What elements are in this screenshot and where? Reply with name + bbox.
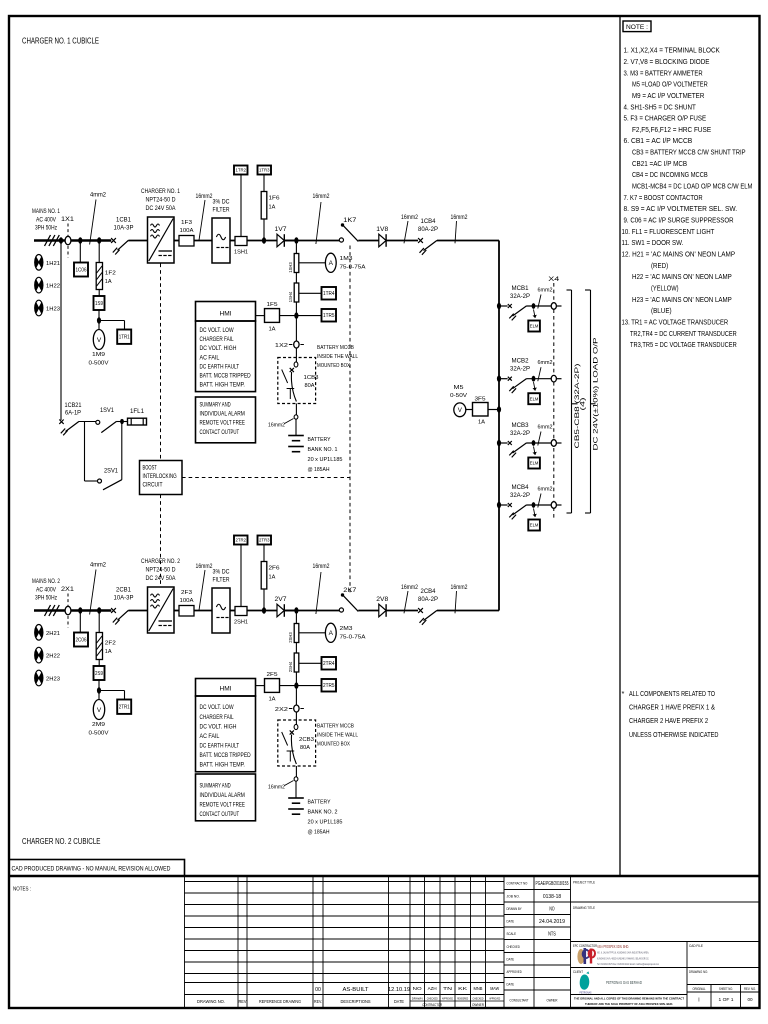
svg-text:INTERLOCKING: INTERLOCKING xyxy=(143,473,177,480)
notes panel divider xyxy=(619,16,621,876)
wire 2V8 to breaker 2CB4 xyxy=(386,610,418,612)
terminal 1X2 xyxy=(289,344,293,346)
wire 1SH4 to junction xyxy=(295,302,297,316)
svg-text:1SV1: 1SV1 xyxy=(100,408,115,414)
svg-text:2F5: 2F5 xyxy=(267,672,278,678)
svg-text:75-0-75A: 75-0-75A xyxy=(340,634,366,640)
junction node MCB2 outgoing xyxy=(527,378,552,380)
svg-text:1M9: 1M9 xyxy=(92,352,105,358)
svg-text:CHARGER 1 HAVE PREFIX 1 &: CHARGER 1 HAVE PREFIX 1 & xyxy=(629,702,715,711)
svg-text:6mm2: 6mm2 xyxy=(538,360,553,366)
junction node: 2C06 tap xyxy=(78,607,82,613)
svg-text:16mm2: 16mm2 xyxy=(268,423,285,429)
wire junction to terminal 2X2 xyxy=(295,686,297,709)
svg-text:9. C06 = AC I/P SURGE SUPPRESS: 9. C06 = AC I/P SURGE SUPPRESSOR xyxy=(624,216,734,225)
svg-text:AS-BUILT: AS-BUILT xyxy=(343,987,370,993)
svg-text:2CB4: 2CB4 xyxy=(421,589,437,595)
svg-text:OWNER: OWNER xyxy=(472,1003,485,1007)
svg-text:DRAWING TITLE: DRAWING TITLE xyxy=(573,906,595,910)
svg-text:DESCRIPTIONS: DESCRIPTIONS xyxy=(341,999,371,1004)
boost contactor 2K7 xyxy=(339,608,343,612)
svg-text:80A-2P: 80A-2P xyxy=(418,597,438,603)
svg-text:M5: M5 xyxy=(454,385,464,391)
battery mccb 1CB3 dashed enclosure xyxy=(278,358,316,404)
charger unit box no.2 xyxy=(148,587,175,633)
wire breaker CB4 to dc bus corner xyxy=(437,610,499,612)
terminal X4-2 xyxy=(551,375,556,382)
svg-text:FILTER: FILTER xyxy=(213,577,230,584)
wire to transducer 1TR1 xyxy=(99,320,125,322)
wire 1SH3 to 1SH4 xyxy=(295,273,297,284)
wire junction to shunt 1SH3 xyxy=(295,241,297,254)
svg-text:1SH1: 1SH1 xyxy=(234,250,248,256)
svg-text:2H21: 2H21 xyxy=(46,631,60,637)
svg-text:1A: 1A xyxy=(105,649,112,655)
wire fuse to filter xyxy=(194,610,212,612)
svg-text:SHEET NO.: SHEET NO. xyxy=(719,987,733,991)
neon lamp 2H22 xyxy=(35,647,43,663)
wire fuse 1F2 to 1S9 xyxy=(98,290,100,297)
svg-text:DATE: DATE xyxy=(507,920,515,924)
wire 2X2 to battery mccb xyxy=(295,712,297,726)
shunt 2SH4 xyxy=(294,653,299,672)
svg-text:CHECKED: CHECKED xyxy=(473,997,485,1001)
svg-text:V: V xyxy=(97,707,102,714)
svg-text:TN: TN xyxy=(443,986,452,991)
svg-text:1CB3: 1CB3 xyxy=(304,375,319,381)
svg-text:ELM: ELM xyxy=(530,324,539,329)
voltmeter 2M9 xyxy=(98,691,100,700)
svg-text:1M3: 1M3 xyxy=(340,256,353,262)
svg-text:SUMMARY AND: SUMMARY AND xyxy=(200,401,231,408)
shunt 1SH1 xyxy=(235,237,247,246)
junction node: 2F6 tap xyxy=(262,607,266,613)
svg-text:CB3 = BATTERY MCCB C/W SHUNT T: CB3 = BATTERY MCCB C/W SHUNT TRIP xyxy=(632,148,746,157)
svg-text:NOTES :: NOTES : xyxy=(13,887,31,893)
shunt 2SH3 xyxy=(294,624,299,643)
svg-text:SCALE: SCALE xyxy=(507,932,517,936)
transducer 1TR2 xyxy=(234,166,248,175)
svg-text:REMOTE VOLT FREE: REMOTE VOLT FREE xyxy=(200,801,246,808)
fuse 2F2 1A xyxy=(96,633,102,660)
junction node: M5 voltmeter tap xyxy=(497,406,501,412)
fuse 3F5 1A xyxy=(466,409,473,411)
svg-text:6mm2: 6mm2 xyxy=(538,487,553,493)
summary alarm output box charger 1 xyxy=(196,397,256,443)
wire: dc riser bus xyxy=(498,241,500,611)
svg-text:REFERENCE DRAWING: REFERENCE DRAWING xyxy=(259,999,301,1004)
svg-text:I: I xyxy=(698,998,699,1004)
svg-text:DC VOLT. LOW: DC VOLT. LOW xyxy=(200,327,235,334)
svg-text:CIRCUIT: CIRCUIT xyxy=(143,481,163,488)
svg-text:CHARGER NO. 2 CUBICLE: CHARGER NO. 2 CUBICLE xyxy=(22,836,101,846)
wire fuse to filter xyxy=(194,240,212,242)
svg-text:ORIGINAL: ORIGINAL xyxy=(693,987,706,991)
svg-text:1H23: 1H23 xyxy=(46,307,60,313)
svg-text:2F6: 2F6 xyxy=(269,566,280,572)
voltmeter M5 0-50V xyxy=(454,403,466,417)
terminal 2X1 xyxy=(67,594,69,628)
svg-text:REMOTE VOLT FREE: REMOTE VOLT FREE xyxy=(200,420,246,427)
svg-text:A: A xyxy=(329,630,334,637)
svg-text:THE ORIGINAL AND ALL COPIES OF: THE ORIGINAL AND ALL COPIES OF THIS DRAW… xyxy=(574,997,684,1001)
svg-text:3PH 50Hz: 3PH 50Hz xyxy=(35,595,57,602)
transducer 1TR5 xyxy=(296,315,321,317)
svg-text:AC 400V: AC 400V xyxy=(36,216,56,223)
svg-text:80A-2P: 80A-2P xyxy=(418,227,438,233)
svg-text:1CB4: 1CB4 xyxy=(421,219,437,225)
svg-text:1TR4: 1TR4 xyxy=(323,291,335,297)
svg-text:DC VOLT. LOW: DC VOLT. LOW xyxy=(200,704,235,711)
junction node MCB1 tap xyxy=(497,303,501,309)
wire 2SH3 to 2SH4 xyxy=(295,643,297,654)
svg-text:ALL COMPONENTS RELATED TO: ALL COMPONENTS RELATED TO xyxy=(629,689,715,698)
wire: mains bus charger 1 xyxy=(34,239,111,241)
svg-text:1FL1: 1FL1 xyxy=(130,409,145,415)
dashed control link charger1 to boost box xyxy=(160,264,162,461)
svg-text:00: 00 xyxy=(315,987,321,993)
wire 2SV1 to lamp junction xyxy=(121,422,123,480)
svg-text:1F3: 1F3 xyxy=(181,220,192,226)
svg-text:DC 24V 50A: DC 24V 50A xyxy=(146,205,177,212)
svg-text:CB4 = DC INCOMING MCCB: CB4 = DC INCOMING MCCB xyxy=(632,170,708,179)
svg-text:1X1: 1X1 xyxy=(61,217,75,223)
junction node MCB4 tap xyxy=(497,502,501,508)
wire 2F6 to transducer 2TR3 xyxy=(263,544,265,562)
svg-text:0-500V: 0-500V xyxy=(89,731,109,737)
earth leakage module ELM MCB1 xyxy=(534,309,536,318)
svg-text:SUMMARY AND: SUMMARY AND xyxy=(200,783,231,790)
svg-text:CONTACT OUTPUT: CONTACT OUTPUT xyxy=(200,429,240,436)
terminal X4-4 xyxy=(551,502,556,509)
fuse 1F3 100A xyxy=(179,236,194,247)
contract info panel xyxy=(504,889,571,891)
svg-text:1A: 1A xyxy=(268,327,275,333)
transducer 2TR2 xyxy=(234,536,248,545)
svg-text:16mm2: 16mm2 xyxy=(313,194,331,200)
svg-text:OWNER: OWNER xyxy=(547,999,558,1003)
svg-text:2M9: 2M9 xyxy=(92,722,105,728)
fuse 2F6 1A xyxy=(263,589,265,611)
transducer 1TR3 xyxy=(258,166,272,175)
junction node: 2TR5 / 2F5 tap xyxy=(294,682,298,688)
svg-text:ELM: ELM xyxy=(530,396,539,401)
svg-text:CHECKED: CHECKED xyxy=(427,997,439,1001)
wire charger box to fuse 2F3 xyxy=(174,610,179,612)
breaker 2CB3 80A xyxy=(294,724,298,729)
summary alarm output box charger 2 xyxy=(196,774,256,821)
svg-text:MNB: MNB xyxy=(474,986,483,991)
svg-text:INSIDE THE WALL: INSIDE THE WALL xyxy=(317,733,359,739)
svg-text:1CB1: 1CB1 xyxy=(116,218,132,224)
neon lamp 2H23 xyxy=(35,670,43,686)
battery bank no.2 xyxy=(295,781,297,798)
svg-text:BATT. MCCB TRIPPED: BATT. MCCB TRIPPED xyxy=(200,373,251,380)
wire shunt to diode junction xyxy=(247,610,296,612)
svg-text:1C06: 1C06 xyxy=(76,267,87,273)
svg-text:NO: NO xyxy=(413,986,423,991)
terminal X4-1 xyxy=(551,303,556,310)
fluorescent light 1FL1 xyxy=(128,418,147,425)
charger unit box no.1 xyxy=(148,217,175,263)
junction node MCB3 outgoing xyxy=(527,442,552,444)
svg-text:PETRONAS: PETRONAS xyxy=(580,992,592,995)
junction node MCB1 outgoing xyxy=(527,305,552,307)
svg-text:32A-2P: 32A-2P xyxy=(510,493,530,499)
breaker 1CB3 80A xyxy=(294,362,298,367)
svg-text:20 x UP1L185: 20 x UP1L185 xyxy=(308,820,344,826)
svg-text:3% DC: 3% DC xyxy=(213,569,230,576)
breaker 2CB1 10A-3P xyxy=(111,608,116,613)
svg-text:11. SW1 = DOOR SW.: 11. SW1 = DOOR SW. xyxy=(622,238,684,247)
ammeter 2M3 xyxy=(299,632,326,634)
mcb MCB2 32A-2P xyxy=(499,378,508,380)
wire filter to shunt 1SH1 xyxy=(230,240,235,242)
terminal 2X2 xyxy=(289,708,293,710)
svg-text:MCB1: MCB1 xyxy=(512,286,530,292)
neon lamp 1H23 xyxy=(35,300,43,316)
svg-text:CONTACT OUTPUT: CONTACT OUTPUT xyxy=(200,811,240,818)
wire 1F6 to transducer 1TR3 xyxy=(263,174,265,192)
svg-text:10. FL1 = FLUORESCENT LIGHT: 10. FL1 = FLUORESCENT LIGHT xyxy=(622,227,715,236)
svg-text:0-500V: 0-500V xyxy=(89,361,109,367)
svg-text:JOB NO.: JOB NO. xyxy=(507,895,520,899)
svg-text:CB21 =AC I/P MCB: CB21 =AC I/P MCB xyxy=(632,159,687,168)
svg-text:1 OF 1: 1 OF 1 xyxy=(719,997,734,1002)
transducer 2TR1 xyxy=(117,700,131,714)
svg-text:REV.: REV. xyxy=(314,999,322,1004)
breaker 1CB21 6A-1P xyxy=(59,420,63,424)
svg-text:PROJECT TITLE: PROJECT TITLE xyxy=(573,880,595,884)
transducer 1TR4 xyxy=(299,292,322,294)
svg-text:2H22: 2H22 xyxy=(46,654,60,660)
earth leakage module ELM MCB4 xyxy=(534,508,536,517)
transducer 2TR5 xyxy=(296,685,321,687)
svg-text:MAINS NO. 1: MAINS NO. 1 xyxy=(32,208,60,215)
svg-text:32A-2P: 32A-2P xyxy=(510,367,530,373)
junction node: battery branch xyxy=(284,240,339,242)
svg-text:16mm2: 16mm2 xyxy=(196,194,214,200)
svg-text:INDIVIDUAL ALARM: INDIVIDUAL ALARM xyxy=(200,792,245,799)
svg-text:2X1: 2X1 xyxy=(61,587,75,593)
surge suppressor 2C06 xyxy=(74,633,88,647)
fuse 1F2 1A xyxy=(96,263,102,290)
svg-text:1TR1: 1TR1 xyxy=(119,335,130,341)
svg-text:2H23: 2H23 xyxy=(46,677,60,683)
svg-text:DC 24V(±10%) LOAD O/P: DC 24V(±10%) LOAD O/P xyxy=(593,338,600,451)
svg-text:APPROVED: APPROVED xyxy=(507,970,523,974)
junction node: 1F6 tap xyxy=(262,237,266,243)
svg-text:20 x UP1L185: 20 x UP1L185 xyxy=(308,457,344,463)
mcb MCB4 32A-2P xyxy=(499,504,508,506)
svg-text:BATTERY MCCB: BATTERY MCCB xyxy=(317,724,354,730)
dashed control link 1K7-2K7 xyxy=(349,246,351,595)
transducer 2TR4 xyxy=(299,662,322,664)
svg-text:80A: 80A xyxy=(305,383,315,389)
svg-text:16mm2: 16mm2 xyxy=(313,564,331,570)
svg-text:1F6: 1F6 xyxy=(269,196,280,202)
svg-text:DRAWN BY: DRAWN BY xyxy=(507,907,523,911)
svg-text:AZH: AZH xyxy=(428,986,437,991)
svg-text:MCB4: MCB4 xyxy=(512,485,530,491)
svg-text:CLIENT: CLIENT xyxy=(573,970,583,974)
svg-text:CHARGER FAIL: CHARGER FAIL xyxy=(200,336,234,343)
svg-text:16mm2: 16mm2 xyxy=(268,785,285,791)
wire: parallel branch for 2SV1 xyxy=(84,422,86,482)
svg-text:2TR4: 2TR4 xyxy=(323,661,335,667)
svg-text:NOTE :: NOTE : xyxy=(626,24,648,31)
svg-text:BOOST: BOOST xyxy=(143,464,157,471)
wire to transducer 2TR1 xyxy=(99,690,125,692)
dashed control link boost box to charger2 xyxy=(160,495,162,588)
svg-text:THEREOF ARE THE SOLE PROPERTY: THEREOF ARE THE SOLE PROPERTY OF ASIA PR… xyxy=(585,1002,673,1006)
svg-text:AC FAIL: AC FAIL xyxy=(200,354,220,361)
breaker 1CB4 80A-2P xyxy=(418,238,423,243)
blocking diode 1V8 xyxy=(379,234,386,247)
svg-text:8. S9 = AC I/P VOLTMETER SEL.: 8. S9 = AC I/P VOLTMETER SEL. SW. xyxy=(624,204,738,213)
svg-text:2TR2: 2TR2 xyxy=(236,538,247,543)
load output bracket DC 24V xyxy=(585,289,591,291)
shunt 1SH3 xyxy=(294,254,299,273)
cad produced drawing box xyxy=(9,860,185,877)
svg-text:RENDERED: RENDERED xyxy=(457,997,469,1001)
svg-text:DATE: DATE xyxy=(394,999,404,1004)
svg-text:5. F3 = CHARGER O/P FUSE: 5. F3 = CHARGER O/P FUSE xyxy=(624,114,707,123)
svg-text:7. K7 = BOOST CONTACTOR: 7. K7 = BOOST CONTACTOR xyxy=(624,193,703,202)
junction node below 2S9 xyxy=(98,680,100,691)
svg-text:(RED): (RED) xyxy=(651,261,668,270)
svg-text:M9 = AC I/P VOLTMETER: M9 = AC I/P VOLTMETER xyxy=(632,91,704,100)
svg-text:CHARGER FAIL: CHARGER FAIL xyxy=(200,714,234,721)
svg-text:CONTRACT NO: CONTRACT NO xyxy=(507,882,528,886)
junction node below 1S9 xyxy=(98,310,100,321)
alarm annunciator HMI charger 1 xyxy=(196,302,256,322)
svg-text:2TR3: 2TR3 xyxy=(259,538,270,543)
junction node: 1C06 tap xyxy=(78,237,82,243)
terminal strip X4 dashed line xyxy=(553,283,555,520)
svg-text:2CB3: 2CB3 xyxy=(299,737,314,743)
svg-text:1SH4: 1SH4 xyxy=(288,291,293,302)
svg-text:DRAWING NO.: DRAWING NO. xyxy=(197,999,225,1004)
svg-text:2M3: 2M3 xyxy=(340,626,353,632)
battery bank no.1 xyxy=(295,419,297,435)
wire junction to shunt 2SH3 xyxy=(295,611,297,624)
svg-text:EPC CONTRACTOR: EPC CONTRACTOR xyxy=(573,944,597,948)
svg-text:10A-3P: 10A-3P xyxy=(114,226,134,232)
wire mccb to battery connection point xyxy=(295,404,297,416)
door switch 2SV1 xyxy=(98,479,102,483)
breaker 1CB1 10A-3P xyxy=(111,238,116,243)
svg-text:6. CB1 = AC I/P MCCB: 6. CB1 = AC I/P MCCB xyxy=(624,136,693,145)
shunt 1SH4 xyxy=(294,283,299,302)
blocking diode 2V7 xyxy=(277,604,284,617)
svg-text:1. X1,X2,X4 = TERMINAL BLOCK: 1. X1,X2,X4 = TERMINAL BLOCK xyxy=(624,46,720,55)
svg-text:32A-2P: 32A-2P xyxy=(510,431,530,437)
ammeter 1M3 xyxy=(299,262,326,264)
svg-text:CONSULTANT: CONSULTANT xyxy=(510,999,529,1003)
svg-text:3. M3 = BATTERY AMMETER: 3. M3 = BATTERY AMMETER xyxy=(624,68,703,77)
neon lamp 1H22 xyxy=(35,277,43,293)
svg-text:12. H21 = 'AC MAINS ON' NEON L: 12. H21 = 'AC MAINS ON' NEON LAMP xyxy=(622,250,736,259)
svg-text:1A: 1A xyxy=(105,279,112,285)
svg-text:1TR5: 1TR5 xyxy=(323,313,335,319)
svg-text:10A-3P: 10A-3P xyxy=(114,596,134,602)
3% dc filter box charger 1 xyxy=(212,218,230,263)
earth leakage module ELM MCB3 xyxy=(534,446,536,455)
svg-text:2TR5: 2TR5 xyxy=(323,683,335,689)
svg-text:1A: 1A xyxy=(269,575,276,581)
terminal 1X1 xyxy=(67,224,69,258)
svg-text:FILTER: FILTER xyxy=(213,207,230,214)
svg-text:CAD PRODUCED DRAWING - NO MANU: CAD PRODUCED DRAWING - NO MANUAL REVISIO… xyxy=(12,866,171,873)
svg-text:ELM: ELM xyxy=(530,523,539,528)
svg-text:MAW: MAW xyxy=(490,986,500,991)
svg-text:*: * xyxy=(622,689,625,698)
svg-text:2CB1: 2CB1 xyxy=(116,588,132,594)
svg-text:DATE: DATE xyxy=(507,958,515,962)
mcb MCB1 32A-2P xyxy=(499,305,508,307)
3% dc filter box charger 2 xyxy=(212,588,230,633)
selector switch 1S9 xyxy=(94,296,105,310)
wire mccb to battery connection point xyxy=(295,766,297,777)
svg-text:ELM: ELM xyxy=(530,461,539,466)
neon lamp 2H21 xyxy=(35,625,43,641)
svg-text:DATE: DATE xyxy=(507,983,515,987)
svg-text:3PH 50Hz: 3PH 50Hz xyxy=(35,225,57,232)
svg-text:2SV1: 2SV1 xyxy=(104,468,119,474)
svg-text:X4: X4 xyxy=(548,276,560,283)
svg-text:Tel: 03-6034 4679 Fax: 03-60: Tel: 03-6034 4679 Fax: 03-6034 4112 Emai… xyxy=(597,962,659,966)
svg-text:1CB21: 1CB21 xyxy=(65,403,83,409)
svg-text:KK: KK xyxy=(458,986,467,991)
alarm annunciator HMI charger 2 xyxy=(196,679,256,697)
wire to 1C06 xyxy=(79,241,81,263)
svg-text:4mm2: 4mm2 xyxy=(90,193,107,199)
svg-text:AC FAIL: AC FAIL xyxy=(200,733,220,740)
breaker 2CB4 80A-2P xyxy=(418,608,423,613)
svg-text:2F2: 2F2 xyxy=(105,641,116,647)
svg-text:KUNDANG JAYA, 48020 KUNDANG, R: KUNDANG JAYA, 48020 KUNDANG, RAWANG, SEL… xyxy=(597,957,649,961)
selector switch 2S9 xyxy=(94,666,105,680)
shunt 2SH1 xyxy=(235,607,247,616)
svg-text:24.04.2019: 24.04.2019 xyxy=(539,919,565,925)
svg-text:H23 = 'AC MAINS ON' NEON LAMP: H23 = 'AC MAINS ON' NEON LAMP xyxy=(632,295,732,304)
svg-text:16mm2: 16mm2 xyxy=(451,585,469,591)
epc contractor logo xyxy=(577,949,584,964)
transducer 2TR3 xyxy=(258,536,272,545)
svg-text:MCB1-MCB4 = DC LOAD O/P MCB C/: MCB1-MCB4 = DC LOAD O/P MCB C/W ELM xyxy=(632,182,752,191)
svg-text:1A: 1A xyxy=(478,420,485,426)
earth leakage module ELM MCB2 xyxy=(534,382,536,391)
svg-text:0-50V: 0-50V xyxy=(450,393,467,399)
svg-text:1F5: 1F5 xyxy=(267,302,278,308)
svg-text:AC 400V: AC 400V xyxy=(36,586,56,593)
svg-text:BATT. HIGH TEMP.: BATT. HIGH TEMP. xyxy=(200,762,246,769)
svg-text:1TR2: 1TR2 xyxy=(236,168,247,173)
svg-text:ASIA PROSPEK SDN. BHD.: ASIA PROSPEK SDN. BHD. xyxy=(597,944,629,949)
svg-text:CHARGER 2 HAVE PREFIX 2: CHARGER 2 HAVE PREFIX 2 xyxy=(629,716,708,725)
svg-text:2V8: 2V8 xyxy=(376,597,389,603)
svg-text:APPROVED: APPROVED xyxy=(489,997,501,1001)
svg-text:16mm2: 16mm2 xyxy=(451,215,469,221)
svg-text:1H21: 1H21 xyxy=(46,261,60,267)
revision table grid xyxy=(185,881,505,883)
svg-text:1SH3: 1SH3 xyxy=(288,262,293,273)
svg-text:NO: NO xyxy=(549,906,554,912)
svg-text:16mm2: 16mm2 xyxy=(196,564,214,570)
svg-text:16mm2: 16mm2 xyxy=(401,215,419,221)
junction node: battery branch xyxy=(284,610,339,612)
